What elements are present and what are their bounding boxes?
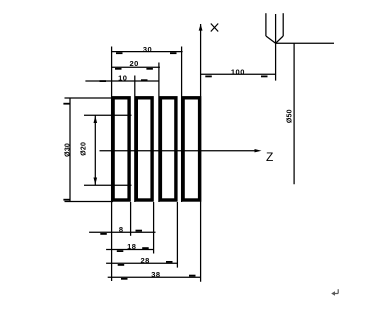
svg-text:8: 8 bbox=[119, 225, 124, 234]
svg-text:Ø50: Ø50 bbox=[287, 109, 294, 123]
svg-text:10: 10 bbox=[118, 74, 127, 83]
svg-text:30: 30 bbox=[143, 45, 152, 54]
svg-text:Ø20: Ø20 bbox=[80, 142, 87, 156]
svg-text:18: 18 bbox=[127, 242, 136, 251]
svg-text:100: 100 bbox=[231, 67, 245, 76]
svg-text:Z: Z bbox=[266, 150, 273, 164]
svg-text:38: 38 bbox=[151, 270, 160, 279]
svg-text:20: 20 bbox=[130, 59, 139, 68]
svg-text:Ø30: Ø30 bbox=[64, 143, 71, 157]
svg-text:28: 28 bbox=[141, 256, 150, 265]
